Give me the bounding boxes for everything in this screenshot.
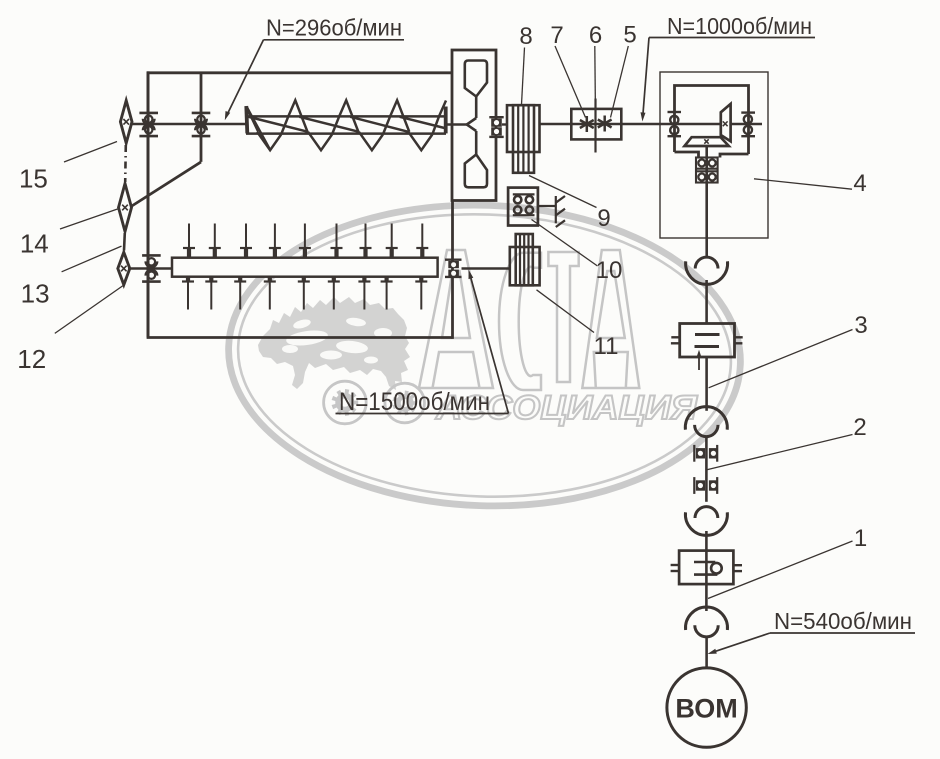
universal joint 3rd bbox=[685, 512, 727, 535]
svg-text:N=1500об/мин: N=1500об/мин bbox=[339, 388, 490, 416]
gearbox4 horizontal shaft bbox=[660, 123, 721, 126]
svg-text:10: 10 bbox=[596, 257, 623, 284]
shaft clutch8 to gear box 5-7 bbox=[540, 123, 572, 125]
svg-text:N=1000об/мин: N=1000об/мин bbox=[667, 13, 812, 39]
bearing on reel right bbox=[445, 260, 462, 277]
top shaft bbox=[130, 123, 247, 126]
fan shaft stub bbox=[446, 123, 467, 125]
svg-text:13: 13 bbox=[21, 279, 50, 309]
svg-text:14: 14 bbox=[20, 229, 49, 259]
svg-text:11: 11 bbox=[594, 333, 619, 360]
reel left stub shaft bbox=[128, 267, 172, 269]
watermark ACTA letters bbox=[419, 250, 639, 390]
vertical shaft from gearbox 4 bbox=[705, 146, 708, 257]
watermark ellipse ring bbox=[223, 196, 745, 514]
pulley 13 bbox=[118, 252, 130, 285]
bearing on top shaft left bbox=[139, 112, 158, 115]
axis dash-dot between pulley 15 and 14 bbox=[124, 145, 127, 182]
universal joint 4th bbox=[686, 607, 728, 630]
shaft between bearings bbox=[705, 445, 708, 502]
gearbox 1 side stubs bbox=[671, 564, 680, 566]
svg-text:2: 2 bbox=[853, 414, 866, 441]
bearing pair lower bbox=[693, 477, 695, 494]
universal joint below gearbox 4 bbox=[686, 261, 728, 284]
star gear 7 bbox=[580, 116, 594, 132]
bearing unit 10 bbox=[508, 188, 538, 226]
svg-text:1: 1 bbox=[854, 525, 867, 552]
universal joint 2nd bbox=[685, 407, 727, 430]
bearing at fan output bbox=[489, 116, 503, 118]
vertical axis through box bbox=[594, 99, 596, 153]
shaft joint3 to gearbox 1 bbox=[705, 531, 708, 551]
svg-text:7: 7 bbox=[550, 22, 563, 49]
diagonal brace to pulley 14 bbox=[131, 162, 201, 207]
frame bottom line bbox=[147, 336, 453, 339]
bearing on reel left bbox=[142, 255, 161, 281]
shaft through box bbox=[571, 123, 621, 125]
svg-text:15: 15 bbox=[19, 164, 48, 194]
reel tines bottom bbox=[182, 277, 427, 310]
frame right vertical bbox=[451, 201, 454, 339]
svg-text:ВОМ: ВОМ bbox=[675, 694, 737, 724]
friction clutch 11 bbox=[510, 234, 540, 285]
gearbox 1 box bbox=[679, 551, 733, 585]
friction clutch 8/9 bbox=[507, 105, 540, 173]
svg-text:4: 4 bbox=[853, 170, 866, 197]
gearbox 4 housing bbox=[675, 86, 749, 158]
shaft box5-7 to gearbox 4 bbox=[621, 123, 660, 125]
svg-text:9: 9 bbox=[597, 205, 610, 232]
svg-text:5: 5 bbox=[623, 22, 636, 49]
svg-text:12: 12 bbox=[17, 344, 46, 374]
fixed anchor symbol bbox=[556, 196, 565, 227]
frame top line bbox=[147, 71, 453, 74]
shaft to PTO bbox=[705, 638, 708, 669]
gearbox4 left bearing bbox=[668, 112, 682, 136]
fan housing bbox=[452, 50, 496, 201]
pulley 14 bbox=[119, 184, 132, 232]
svg-text:6: 6 bbox=[589, 22, 602, 49]
link pulley 14 to pulley 13 bbox=[123, 233, 126, 251]
bevel gear on horizontal shaft bbox=[721, 104, 731, 141]
fan blade bbox=[465, 61, 487, 188]
gearbox 1 inner bbox=[694, 561, 715, 564]
PTO circle BOM bbox=[667, 668, 746, 747]
pulley 15 bbox=[120, 101, 132, 144]
gearbox 4 outline bbox=[660, 72, 768, 238]
svg-text:N=296об/мин: N=296об/мин bbox=[266, 15, 402, 41]
shaft joint to safety clutch 3 bbox=[705, 280, 708, 324]
gearbox4 lower bearing block bbox=[696, 158, 718, 183]
gear unit box 5-7 bbox=[571, 109, 621, 139]
svg-text:N=540об/мин: N=540об/мин bbox=[774, 608, 912, 634]
bevel gear on vertical shaft bbox=[685, 137, 729, 146]
svg-text:3: 3 bbox=[854, 312, 867, 339]
shaft through gearbox 1 bbox=[705, 551, 708, 611]
clutch 3 inner plates bbox=[695, 333, 720, 336]
auger screw conveyor bbox=[246, 100, 446, 150]
clutch 3 adjust arrow bbox=[698, 354, 700, 370]
svg-text:8: 8 bbox=[519, 23, 532, 50]
shaft fan to clutch 8 bbox=[502, 123, 507, 125]
shaft below joint bbox=[705, 437, 708, 445]
reel body bbox=[172, 258, 438, 277]
clutch 3 side stubs bbox=[671, 336, 679, 338]
bearing pair upper (2) bbox=[693, 445, 695, 462]
watermark gear medallions bbox=[324, 381, 425, 424]
watermark boar bbox=[258, 297, 410, 390]
frame left vertical bbox=[147, 71, 150, 337]
gearbox4 right bearing bbox=[741, 113, 755, 137]
star gear 5 bbox=[598, 116, 612, 132]
safety clutch box 3 bbox=[680, 324, 735, 358]
bearing support vertical bbox=[200, 73, 203, 162]
bearing on top shaft right bbox=[192, 112, 211, 115]
link to fixed anchor bbox=[538, 205, 556, 207]
shaft through clutch 3 bbox=[705, 357, 708, 411]
shaft reel to clutch 11 bbox=[462, 267, 510, 269]
reel tines top bbox=[183, 224, 428, 259]
